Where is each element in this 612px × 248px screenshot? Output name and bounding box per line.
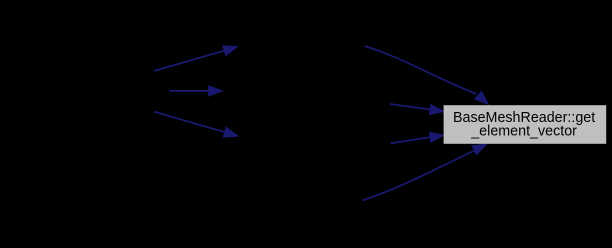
edge: top middle node -> BaseMeshReader::get_element_vector (curved) bbox=[365, 46, 489, 104]
edge: left node -> top middle node bbox=[154, 46, 238, 71]
edge: middle node -> BaseMeshReader::get_element_vector (upper straight) bbox=[390, 104, 444, 115]
node BaseMeshReader::get_element_vector (highlighted grey box) bbox=[444, 105, 607, 144]
svg-text:_element_vector: _element_vector bbox=[470, 123, 577, 139]
edge: bottom node -> BaseMeshReader::get_element_vector (curved) bbox=[362, 144, 486, 200]
edge: middle node -> BaseMeshReader::get_element_vector (lower straight) bbox=[391, 132, 444, 143]
edge: left node -> lower middle node bbox=[154, 112, 238, 138]
edge: left node -> middle node (horizontal) bbox=[169, 86, 223, 96]
